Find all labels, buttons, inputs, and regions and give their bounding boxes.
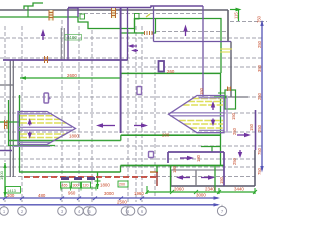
door symbol D2	[149, 152, 154, 158]
svg-text:750: 750	[257, 147, 262, 155]
green vertical x155.5	[155, 19, 157, 34]
pentagon arrow right: yellow hatch	[179, 99, 223, 129]
purple wall: room top y152	[168, 151, 224, 153]
grid bubbles	[0, 205, 227, 216]
svg-text:960: 960	[68, 191, 76, 196]
green mark x222 y97	[214, 96, 227, 98]
svg-text:750: 750	[257, 167, 262, 175]
orange column hatch top1	[49, 10, 54, 21]
arrow: top-left up	[41, 29, 45, 40]
green dim line y188	[61, 187, 96, 189]
dark red vertical x157	[156, 172, 158, 186]
arrow: mid left	[96, 123, 115, 127]
column symbol on y66 axis	[159, 61, 165, 72]
green jog x121	[120, 73, 122, 78]
svg-text:4100: 4100	[67, 35, 77, 40]
dark thick dashed segment	[61, 177, 99, 180]
arrow: pentagon left down	[28, 132, 32, 139]
svg-text:1413: 1413	[7, 188, 17, 193]
arrow: room bottom right	[201, 175, 215, 179]
green dim line y192 right	[147, 191, 255, 193]
svg-text:480: 480	[38, 193, 46, 198]
blue vertical right edge	[261, 21, 263, 170]
svg-text:1800: 1800	[100, 183, 110, 188]
wall: double gray verticals x61-64	[60, 28, 62, 60]
svg-text:250: 250	[232, 157, 237, 165]
svg-text:150: 150	[199, 87, 204, 95]
wall: gray L bottom right horizontal	[171, 185, 255, 187]
svg-text:115: 115	[234, 12, 239, 19]
orange column hatch top2	[111, 8, 116, 18]
svg-text:250: 250	[232, 127, 237, 135]
purple wall: right vertical x255.5 upper	[255, 110, 257, 150]
dimension texts red	[65, 35, 82, 41]
purple stub y150.5 left	[0, 150, 12, 152]
svg-text:1800: 1800	[69, 134, 79, 139]
purple wall: vertical x203	[202, 6, 204, 97]
green band y165.5	[121, 165, 225, 167]
purple wall: vertical x153.5	[153, 6, 155, 42]
svg-text:250: 250	[257, 92, 262, 100]
arrow: pentagon right up	[211, 101, 215, 110]
svg-text:250: 250	[257, 124, 262, 132]
green vertical x221 lower	[220, 73, 222, 166]
green stub y146.5	[201, 146, 221, 148]
green label boxes	[6, 181, 129, 193]
green wall y140.5 through left pentagon	[8, 140, 121, 142]
grid: horizontal dashed axis lines	[0, 38, 262, 177]
rotated red texts	[172, 12, 262, 184]
arrow: pentagon left up	[28, 118, 32, 125]
svg-text:150: 150	[249, 123, 254, 131]
svg-text:200: 200	[162, 133, 170, 138]
wall: top gray horizontal	[0, 9, 228, 11]
svg-text:2060: 2060	[174, 187, 184, 192]
svg-text:2340: 2340	[205, 187, 215, 192]
svg-text:3440: 3440	[234, 187, 244, 192]
green line y145.5	[8, 145, 55, 147]
arrow: right mid right	[237, 133, 251, 137]
green wall y73	[121, 72, 221, 74]
green vertical x134.5	[134, 19, 136, 34]
orange column hatch mid	[45, 56, 48, 63]
green stub x152.5-155.5 y33	[153, 32, 156, 34]
svg-text:150: 150	[231, 112, 236, 120]
arrow: room top right	[180, 156, 194, 160]
purple wall: vertical x127.5 short	[127, 8, 129, 60]
svg-text:200: 200	[7, 193, 15, 198]
purple wall: horizontal y41.5	[154, 41, 232, 43]
wall: double gray verticals x10-13	[9, 60, 11, 177]
pentagon arrow left: yellow hatch	[20, 116, 67, 138]
door symbol D3	[137, 87, 142, 95]
svg-text:300: 300	[73, 184, 79, 188]
purple wall: top jog x68-78	[68, 8, 78, 17]
wall: short gray stub left y85	[0, 84, 13, 86]
green wall y135 mid band	[121, 134, 221, 136]
blue dim line y204.3	[0, 204, 218, 206]
purple wall: vertical x120.6	[120, 8, 122, 133]
blue dim line y197.5	[0, 197, 218, 199]
green wall y33	[121, 32, 144, 34]
arrow: mid right	[134, 123, 148, 127]
purple wall: top horizontal y7.5	[68, 7, 151, 9]
green mark: top-left jog	[24, 3, 43, 9]
green verticals in room band	[170, 166, 172, 192]
green wall: top stepped polyline	[0, 17, 221, 73]
green square marker x80	[80, 14, 85, 19]
svg-text:3000: 3000	[196, 193, 206, 198]
green stub x212	[211, 147, 213, 153]
arrow: room bottom left	[176, 175, 190, 179]
grid: dashed line y13.5	[78, 13, 203, 15]
svg-text:1960: 1960	[134, 191, 144, 196]
green line y122 left	[0, 121, 20, 123]
yellow tick x145	[146, 14, 150, 17]
green vertical x8.5	[8, 100, 10, 146]
arrow: top-mid up	[183, 25, 187, 37]
green dim top right x238	[238, 10, 240, 22]
green square marker x134	[135, 14, 140, 20]
svg-text:180: 180	[196, 154, 201, 162]
orange hatch y33	[145, 31, 153, 35]
room box: verticals and top	[170, 170, 172, 186]
wall: right gray vertical	[227, 10, 229, 42]
green line y172	[19, 171, 121, 173]
svg-text:2500: 2500	[117, 200, 127, 205]
purple wall: vertical x68	[67, 8, 69, 60]
grid: vertical dashed axis lines	[5, 20, 155, 202]
green box right side	[225, 90, 236, 109]
svg-text:150: 150	[219, 176, 224, 184]
green vertical x157	[156, 166, 158, 173]
wall: gray stub at y97	[228, 96, 248, 98]
door symbol D1	[44, 93, 49, 103]
svg-text:250: 250	[257, 40, 262, 48]
green vertical dim x5	[4, 163, 6, 197]
svg-text:260: 260	[167, 69, 175, 74]
svg-text:200: 200	[119, 183, 125, 187]
green jog x120.5	[120, 166, 122, 173]
yellow mark right top	[220, 49, 232, 52]
pentagon arrow right: outline	[169, 96, 225, 133]
orange hatch left x4-7	[5, 120, 8, 129]
svg-text:165: 165	[62, 184, 68, 188]
arrow: right small down x240	[238, 150, 242, 158]
svg-text:750: 750	[257, 15, 262, 23]
wall: gray L bottom right vertical	[254, 150, 256, 186]
green dim line y78 left with arrow	[20, 77, 121, 79]
pentagon arrow left: outline	[18, 112, 76, 145]
svg-text:2600: 2600	[67, 73, 77, 78]
svg-text:120: 120	[83, 184, 89, 188]
green jog x120.8	[120, 135, 122, 140]
pentagon arrow left: lavender inner lines	[19, 113, 51, 115]
green vertical x19	[19, 95, 21, 172]
red dashed demolition line	[24, 176, 157, 178]
arrow: small left arrow pair x128	[128, 44, 139, 52]
svg-text:3000: 3000	[104, 191, 114, 196]
orange stub y172	[150, 171, 158, 173]
purple wall: horizontal y60	[3, 59, 128, 61]
svg-text:180: 180	[172, 165, 177, 173]
svg-text:1500: 1500	[0, 170, 4, 180]
arrow: pentagon right down	[211, 119, 215, 127]
grid: dashed y31.5	[156, 31, 228, 33]
pentagon arrow right: lavender inner lines	[199, 97, 224, 99]
lavender wall: below pentagon	[12, 145, 50, 147]
green vertical dim x97.5 with arrow	[97, 172, 99, 189]
svg-text:350: 350	[257, 64, 262, 72]
green vertical x28 top	[27, 6, 29, 17]
